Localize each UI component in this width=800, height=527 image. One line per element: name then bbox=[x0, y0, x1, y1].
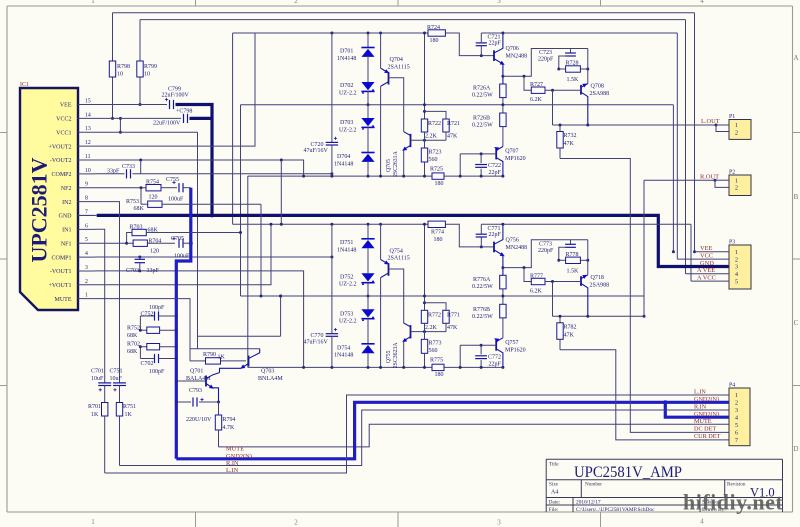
capacitor C752 bbox=[140, 305, 177, 321]
net LIN wire bbox=[105, 395, 729, 473]
resistor R776B 0.22/5W bbox=[472, 304, 506, 338]
svg-text:22uF/100V: 22uF/100V bbox=[162, 92, 190, 98]
transistor Q705 2SC2631A bbox=[386, 132, 446, 178]
svg-text:2: 2 bbox=[735, 186, 738, 192]
wire ladder ties bbox=[139, 316, 142, 359]
svg-text:D752: D752 bbox=[340, 274, 353, 280]
diode D703 UZ-2.2 bbox=[339, 118, 375, 153]
title block frame bbox=[546, 459, 782, 512]
wire rails tie vertical bbox=[232, 33, 234, 224]
svg-text:P4: P4 bbox=[729, 383, 735, 389]
net CURDET wire bbox=[560, 339, 729, 440]
wire input IN1 vertical bbox=[95, 229, 105, 383]
svg-text:C701: C701 bbox=[91, 369, 104, 375]
svg-text:2.2K: 2.2K bbox=[425, 134, 438, 140]
label CUR DET bbox=[694, 433, 721, 440]
wire pin13 bbox=[95, 132, 198, 349]
wire bottom rail channel2 bbox=[248, 366, 503, 369]
svg-text:MN2488: MN2488 bbox=[506, 245, 528, 251]
svg-text:2SA1115: 2SA1115 bbox=[388, 256, 410, 262]
svg-text:33pF: 33pF bbox=[107, 169, 120, 175]
svg-text:22uF/100V: 22uF/100V bbox=[153, 121, 181, 127]
svg-text:IC1: IC1 bbox=[20, 82, 29, 88]
capacitor C799 bbox=[95, 86, 190, 109]
transistor Q756 MN2488 bbox=[494, 223, 588, 282]
wire VCC rail channel1 bbox=[233, 32, 446, 35]
pin 11 -VOUT2 bbox=[50, 154, 95, 164]
svg-text:+VOUT2: +VOUT2 bbox=[48, 144, 71, 150]
svg-text:4: 4 bbox=[700, 518, 704, 526]
resistor R702 bbox=[127, 342, 178, 356]
wire mid rails tie bbox=[240, 105, 242, 296]
capacitor C751 bbox=[110, 369, 127, 403]
svg-text:A VEE: A VEE bbox=[697, 267, 715, 274]
svg-text:C793: C793 bbox=[189, 388, 202, 394]
size cell bbox=[549, 482, 559, 496]
resistor R782 47K bbox=[557, 316, 577, 339]
svg-text:R728: R728 bbox=[566, 61, 579, 67]
svg-text:-VOUT2: -VOUT2 bbox=[50, 158, 72, 164]
capacitor C770 47uF bbox=[304, 224, 339, 367]
label RIN right bbox=[694, 403, 707, 410]
svg-text:6.2K: 6.2K bbox=[530, 97, 543, 103]
pin 5 NF1 bbox=[61, 237, 95, 247]
capacitor C701 bbox=[91, 369, 111, 403]
wire VCC drop to P3 pin2 bbox=[676, 33, 678, 259]
svg-text:R723: R723 bbox=[429, 149, 442, 155]
svg-text:Title: Title bbox=[549, 462, 559, 468]
svg-text:4: 4 bbox=[700, 0, 704, 5]
svg-text:R.IN: R.IN bbox=[226, 460, 239, 467]
svg-text:R.OUT: R.OUT bbox=[700, 173, 719, 180]
svg-text:13: 13 bbox=[85, 126, 91, 132]
wire mute from pin1 bbox=[95, 299, 190, 361]
number cell bbox=[585, 482, 602, 488]
svg-text:GND: GND bbox=[59, 214, 73, 220]
svg-text:120: 120 bbox=[149, 195, 158, 201]
svg-text:D704: D704 bbox=[337, 154, 350, 160]
svg-text:0.22/5W: 0.22/5W bbox=[472, 314, 493, 320]
resistor R704 bbox=[95, 239, 175, 255]
svg-text:VEE: VEE bbox=[700, 245, 713, 252]
net LOUT wire bbox=[553, 124, 730, 132]
svg-text:180: 180 bbox=[435, 181, 444, 187]
wire pin12 to VCC rail bbox=[95, 33, 255, 146]
svg-text:4.7K: 4.7K bbox=[223, 425, 236, 431]
capacitor C722 22pF bbox=[475, 154, 501, 178]
pin 9 NF2 bbox=[61, 182, 95, 192]
svg-text:IN2: IN2 bbox=[62, 200, 71, 206]
capacitor C755 bbox=[166, 177, 191, 203]
svg-text:R727: R727 bbox=[530, 82, 543, 88]
svg-text:3: 3 bbox=[497, 519, 501, 527]
transistor Q703 BNLA4M bbox=[220, 349, 284, 382]
svg-text:R721: R721 bbox=[447, 121, 460, 127]
svg-text:33pF: 33pF bbox=[147, 268, 160, 274]
svg-text:8: 8 bbox=[85, 196, 88, 202]
svg-text:2SA988: 2SA988 bbox=[590, 91, 610, 97]
pin 1 MUTE bbox=[55, 293, 96, 303]
wire VCC1 rail right drop bbox=[685, 20, 687, 274]
svg-text:C702: C702 bbox=[141, 361, 154, 367]
wire mid rail channel2 bbox=[241, 295, 645, 298]
connector P4 bbox=[729, 383, 750, 446]
svg-text:Q705: Q705 bbox=[386, 159, 392, 172]
svg-text:hifidiy.net: hifidiy.net bbox=[683, 490, 783, 515]
label ROUT bbox=[700, 173, 719, 180]
wire VCC rail channel2 bbox=[233, 223, 446, 226]
wire bottom rail channel1 bbox=[248, 175, 503, 178]
diode D704 1N4148 bbox=[334, 153, 375, 177]
resistor R701 bbox=[88, 403, 108, 474]
svg-text:47uF/16V: 47uF/16V bbox=[304, 340, 329, 346]
svg-text:10uF: 10uF bbox=[91, 376, 104, 382]
svg-text:B: B bbox=[794, 193, 799, 201]
svg-text:15: 15 bbox=[85, 99, 91, 105]
svg-text:Q704: Q704 bbox=[390, 57, 403, 63]
resistor R772 2.2K bbox=[421, 223, 441, 332]
svg-text:L.IN: L.IN bbox=[226, 467, 239, 474]
pin 15 VEE bbox=[60, 99, 95, 109]
label GND2N right2 bbox=[694, 411, 719, 418]
svg-text:100pF: 100pF bbox=[149, 369, 165, 375]
diode D752 UZ-2.2 bbox=[339, 273, 375, 309]
svg-text:L.IN: L.IN bbox=[694, 389, 706, 396]
svg-text:3: 3 bbox=[497, 0, 501, 5]
svg-text:MN2488: MN2488 bbox=[506, 54, 528, 60]
svg-text:1: 1 bbox=[735, 393, 738, 399]
svg-text:6: 6 bbox=[735, 431, 738, 437]
pin 4 COMP1 bbox=[51, 251, 95, 261]
svg-text:R702: R702 bbox=[127, 342, 140, 348]
svg-text:UPC2581V: UPC2581V bbox=[27, 157, 52, 262]
wire VEE drop to P3 pin1 bbox=[672, 105, 675, 254]
svg-text:Q757: Q757 bbox=[505, 340, 518, 346]
svg-text:1K: 1K bbox=[91, 412, 99, 418]
svg-text:D751: D751 bbox=[340, 240, 353, 246]
svg-text:R794: R794 bbox=[223, 417, 236, 423]
pin 3 -VOUT1 bbox=[50, 265, 95, 275]
svg-text:C773: C773 bbox=[539, 241, 552, 247]
net GND2 blue wire bbox=[176, 400, 729, 459]
svg-text:NF2: NF2 bbox=[61, 186, 72, 192]
resistor R771 47K bbox=[425, 303, 461, 332]
svg-text:11: 11 bbox=[85, 154, 91, 160]
svg-text:22pF: 22pF bbox=[489, 232, 502, 238]
wire mid rail channel1 bbox=[241, 104, 674, 106]
svg-text:5: 5 bbox=[735, 423, 738, 429]
svg-text:P1: P1 bbox=[729, 114, 735, 120]
svg-text:R.IN: R.IN bbox=[694, 403, 707, 410]
resistor R752 bbox=[127, 326, 178, 340]
svg-text:R772: R772 bbox=[428, 312, 441, 318]
svg-text:VEE: VEE bbox=[60, 103, 72, 109]
wire ROUT pickup bbox=[553, 282, 645, 318]
svg-text:Q706: Q706 bbox=[506, 46, 519, 52]
transistor Q757 MP1620 bbox=[459, 336, 526, 368]
resistor R798 bbox=[109, 61, 130, 78]
svg-text:2SA1115: 2SA1115 bbox=[388, 64, 410, 70]
svg-text:Q718: Q718 bbox=[591, 275, 604, 281]
resistor R777 6.2K bbox=[530, 274, 581, 295]
svg-text:UZ-2.2: UZ-2.2 bbox=[339, 282, 357, 288]
title text bbox=[549, 462, 682, 482]
svg-text:7: 7 bbox=[735, 438, 738, 444]
svg-text:10: 10 bbox=[144, 72, 150, 78]
svg-text:R751: R751 bbox=[123, 404, 136, 410]
label RIN left bbox=[226, 460, 239, 467]
svg-text:0.22/5W: 0.22/5W bbox=[472, 123, 493, 129]
svg-text:1: 1 bbox=[85, 293, 88, 299]
feedback bus blue bbox=[176, 188, 193, 459]
pin 7 GND bbox=[59, 209, 96, 219]
svg-text:14: 14 bbox=[85, 112, 91, 118]
svg-text:R732: R732 bbox=[564, 133, 577, 139]
svg-text:100uF: 100uF bbox=[168, 197, 184, 203]
capacitor C723 220pF bbox=[538, 49, 576, 71]
svg-text:10: 10 bbox=[85, 168, 91, 174]
svg-text:5: 5 bbox=[85, 237, 88, 243]
svg-text:D701: D701 bbox=[340, 49, 353, 55]
resistor R727 6.2K bbox=[530, 82, 581, 103]
resistor R754 bbox=[95, 180, 177, 201]
capacitor C771 22pF bbox=[445, 224, 691, 248]
svg-text:GND: GND bbox=[700, 260, 714, 267]
svg-text:220pF: 220pF bbox=[538, 57, 554, 63]
diode D753 UZ-2.2 bbox=[339, 309, 375, 344]
date row bbox=[549, 499, 721, 506]
svg-text:BALA4M: BALA4M bbox=[186, 376, 211, 382]
svg-text:R773: R773 bbox=[429, 341, 442, 347]
transistor Q708 2SA988 bbox=[581, 82, 609, 125]
svg-text:4: 4 bbox=[735, 272, 738, 278]
label VEE bbox=[700, 245, 713, 252]
svg-text:R774: R774 bbox=[431, 229, 444, 235]
label GND2N right1 bbox=[694, 396, 719, 403]
resistor R751 bbox=[116, 403, 136, 466]
svg-text:100pF: 100pF bbox=[149, 305, 165, 311]
svg-text:VCC1: VCC1 bbox=[56, 130, 71, 136]
svg-text:Q701: Q701 bbox=[190, 369, 203, 375]
connector P3 bbox=[729, 240, 751, 290]
svg-text:47K: 47K bbox=[447, 134, 458, 140]
label DC DET bbox=[694, 426, 716, 433]
svg-text:C752: C752 bbox=[141, 312, 154, 318]
svg-text:R775: R775 bbox=[430, 358, 443, 364]
svg-text:R703: R703 bbox=[130, 224, 143, 230]
label MUTE left bbox=[226, 445, 244, 452]
svg-text:68K: 68K bbox=[127, 349, 138, 355]
capacitor C702 bbox=[140, 354, 177, 375]
svg-text:C722: C722 bbox=[488, 163, 501, 169]
svg-text:220pF: 220pF bbox=[538, 248, 554, 254]
svg-text:UPC2581V_AMP: UPC2581V_AMP bbox=[574, 464, 682, 481]
svg-text:R722: R722 bbox=[428, 121, 441, 127]
svg-text:A VCC: A VCC bbox=[697, 275, 716, 282]
svg-text:1.5K: 1.5K bbox=[567, 77, 580, 83]
svg-text:C:\Users\..\UPC2581VAMP.SchDoc: C:\Users\..\UPC2581VAMP.SchDoc bbox=[576, 507, 655, 513]
svg-text:560: 560 bbox=[429, 348, 438, 354]
svg-text:5: 5 bbox=[735, 279, 738, 285]
resistor R703 bbox=[127, 224, 242, 243]
svg-text:CUR DET: CUR DET bbox=[694, 433, 721, 440]
svg-text:10uF: 10uF bbox=[110, 376, 123, 382]
svg-text:180: 180 bbox=[434, 237, 443, 243]
wire P3 pin leads bbox=[677, 252, 729, 281]
amplifier IC IC1 UPC2581V bbox=[20, 82, 78, 310]
capacitor C733 bbox=[95, 160, 333, 178]
pin 14 VCC2 bbox=[56, 112, 95, 122]
label LOUT bbox=[701, 118, 720, 125]
svg-text:GND2(N): GND2(N) bbox=[694, 396, 719, 403]
svg-text:D: D bbox=[793, 445, 798, 453]
capacitor C772 22pF bbox=[475, 345, 501, 369]
svg-text:2SC3623A: 2SC3623A bbox=[393, 342, 399, 369]
svg-text:A4: A4 bbox=[551, 490, 558, 496]
svg-text:D702: D702 bbox=[340, 83, 353, 89]
wire pin3 to bottom rail2 bbox=[95, 269, 305, 369]
transistor Q754 2SA1115 bbox=[379, 224, 410, 369]
resistor R773 560 bbox=[421, 332, 441, 369]
svg-text:R754: R754 bbox=[146, 180, 159, 186]
svg-text:C772: C772 bbox=[488, 354, 501, 360]
svg-text:Q708: Q708 bbox=[591, 84, 604, 90]
label LIN left bbox=[226, 467, 239, 474]
svg-text:MUTE: MUTE bbox=[226, 445, 244, 452]
resistor R732 47K bbox=[557, 125, 577, 148]
svg-text:68K: 68K bbox=[148, 228, 159, 234]
net MUTE wire bbox=[219, 424, 730, 447]
svg-text:2016/12/17: 2016/12/17 bbox=[576, 500, 601, 506]
svg-text:10: 10 bbox=[117, 72, 123, 78]
svg-text:0.22/5W: 0.22/5W bbox=[472, 284, 493, 290]
diode D701 1N4148 bbox=[337, 33, 375, 106]
svg-text:Date:: Date: bbox=[549, 500, 561, 506]
wire R732 column bbox=[552, 90, 554, 125]
svg-text:UZ-2.2: UZ-2.2 bbox=[339, 319, 357, 325]
transistor Q755 2SC3623A bbox=[386, 323, 446, 369]
resistor R775 180 bbox=[430, 358, 444, 378]
svg-text:R752: R752 bbox=[127, 326, 140, 332]
svg-text:MUTE: MUTE bbox=[694, 418, 712, 425]
svg-text:Q754: Q754 bbox=[390, 248, 403, 254]
resistor R721 47K bbox=[425, 111, 461, 140]
transistor Q706 MN2488 bbox=[494, 32, 588, 91]
wire pin2 to channel2 rail bbox=[95, 223, 273, 285]
resistor R728 1.5K bbox=[559, 49, 590, 84]
svg-text:1: 1 bbox=[91, 518, 95, 526]
svg-text:GND2(N): GND2(N) bbox=[694, 411, 719, 418]
svg-text:2.2K: 2.2K bbox=[425, 325, 438, 331]
svg-text:12: 12 bbox=[85, 140, 91, 146]
svg-text:R798: R798 bbox=[117, 64, 130, 70]
svg-text:1: 1 bbox=[735, 178, 738, 184]
connector P2 bbox=[729, 170, 751, 196]
resistor R724 180 bbox=[427, 25, 445, 44]
capacitor C703 bbox=[95, 256, 333, 275]
svg-text:C703: C703 bbox=[126, 268, 139, 274]
svg-text:2: 2 bbox=[294, 519, 298, 527]
wire input IN2 vertical bbox=[95, 202, 120, 383]
svg-text:22pF: 22pF bbox=[489, 170, 502, 176]
resistor R722 2.2K bbox=[421, 32, 441, 141]
svg-text:P3: P3 bbox=[729, 240, 735, 246]
svg-text:0.22/5W: 0.22/5W bbox=[472, 93, 493, 99]
svg-text:P2: P2 bbox=[729, 170, 735, 176]
svg-text:3: 3 bbox=[85, 265, 88, 271]
svg-text:Q756: Q756 bbox=[506, 237, 519, 243]
pin 12 +VOUT2 bbox=[48, 140, 95, 150]
svg-text:MUTE: MUTE bbox=[55, 297, 72, 303]
svg-text:Revision: Revision bbox=[727, 482, 746, 488]
svg-text:DC DET: DC DET bbox=[694, 426, 716, 433]
svg-text:VCC2: VCC2 bbox=[56, 117, 71, 123]
svg-text:Q707: Q707 bbox=[505, 149, 518, 155]
resistor R753 bbox=[126, 188, 263, 298]
svg-text:1: 1 bbox=[735, 250, 738, 256]
svg-text:C720: C720 bbox=[311, 142, 324, 148]
svg-text:R771: R771 bbox=[447, 312, 460, 318]
svg-text:C705: C705 bbox=[171, 236, 184, 242]
resistor R799 bbox=[137, 61, 157, 78]
label A VEE bbox=[697, 267, 715, 274]
svg-text:R799: R799 bbox=[144, 64, 157, 70]
svg-text:1N4148: 1N4148 bbox=[334, 161, 353, 167]
svg-text:R778: R778 bbox=[566, 252, 579, 258]
svg-text:R753: R753 bbox=[126, 199, 139, 205]
net ROUT wire bbox=[643, 179, 730, 318]
svg-text:4: 4 bbox=[85, 251, 88, 257]
svg-text:120: 120 bbox=[150, 249, 159, 255]
svg-text:Q703: Q703 bbox=[261, 369, 274, 375]
diode D754 1N4148 bbox=[334, 344, 375, 368]
resistor R726B 0.22/5W bbox=[472, 113, 506, 147]
capacitor C705 bbox=[171, 236, 191, 260]
svg-text:6: 6 bbox=[85, 223, 88, 229]
svg-text:1: 1 bbox=[91, 0, 95, 5]
transistor Q718 2SA988 bbox=[581, 273, 609, 316]
label VCC bbox=[700, 253, 713, 260]
svg-text:File:: File: bbox=[549, 507, 559, 513]
svg-text:C771: C771 bbox=[488, 226, 501, 232]
svg-text:1K: 1K bbox=[125, 412, 133, 418]
transistor Q707 MP1620 bbox=[459, 145, 526, 177]
pin 13 VCC1 bbox=[56, 126, 95, 136]
resistor R726A 0.22/5W bbox=[472, 84, 506, 113]
svg-text:7: 7 bbox=[85, 209, 88, 215]
svg-text:C723: C723 bbox=[539, 50, 552, 56]
svg-text:68K: 68K bbox=[127, 333, 138, 339]
svg-text:68K: 68K bbox=[134, 206, 145, 212]
svg-text:C770: C770 bbox=[311, 333, 324, 339]
svg-text:22pF: 22pF bbox=[489, 361, 502, 367]
svg-text:D753: D753 bbox=[340, 311, 353, 317]
svg-text:UZ-2.2: UZ-2.2 bbox=[339, 127, 357, 133]
transistor Q701 BALA4M bbox=[175, 369, 220, 402]
svg-text:D754: D754 bbox=[337, 345, 350, 351]
svg-text:22pF: 22pF bbox=[489, 41, 502, 47]
wire VCC2 rail right drop bbox=[693, 13, 696, 254]
capacitor C798 bbox=[95, 109, 192, 127]
capacitor C793 bbox=[175, 388, 220, 423]
svg-text:1N4148: 1N4148 bbox=[337, 247, 356, 253]
svg-text:180: 180 bbox=[430, 38, 439, 44]
svg-text:R776A: R776A bbox=[473, 277, 491, 283]
svg-text:220U/10V: 220U/10V bbox=[186, 417, 212, 423]
diode D751 1N4148 bbox=[337, 224, 375, 297]
resistor R776A 0.22/5W bbox=[472, 275, 506, 304]
svg-text:R704: R704 bbox=[148, 239, 161, 245]
